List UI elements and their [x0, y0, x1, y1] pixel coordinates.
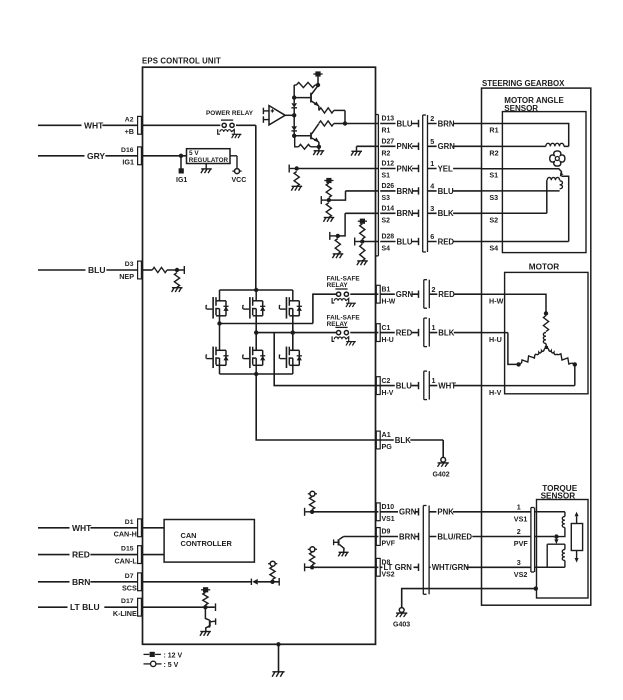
svg-text:A2: A2	[125, 116, 134, 123]
svg-text:D17: D17	[121, 598, 134, 605]
svg-text:GRN: GRN	[396, 290, 414, 299]
svg-text:D13: D13	[382, 116, 395, 123]
svg-text:BRN: BRN	[72, 577, 90, 587]
svg-text:CAN-H: CAN-H	[114, 530, 137, 539]
svg-text:D12: D12	[382, 161, 395, 168]
svg-text:WHT: WHT	[84, 120, 104, 130]
svg-text:S1: S1	[489, 171, 498, 180]
svg-text:H-V: H-V	[382, 390, 394, 397]
svg-text:: 12 V: : 12 V	[164, 652, 183, 659]
svg-text:D14: D14	[382, 206, 395, 213]
svg-text:C2: C2	[382, 378, 391, 385]
svg-text:CONTROLLER: CONTROLLER	[181, 539, 233, 548]
svg-text:5: 5	[430, 137, 434, 146]
svg-text:H-V: H-V	[489, 388, 502, 397]
svg-text:D10: D10	[382, 504, 395, 511]
svg-text:2: 2	[517, 527, 521, 536]
svg-text:3: 3	[517, 558, 521, 567]
svg-text:BRN: BRN	[438, 119, 455, 128]
svg-text:PVF: PVF	[514, 539, 529, 548]
svg-text:PNK: PNK	[397, 164, 414, 173]
svg-text:BLK: BLK	[438, 209, 454, 218]
svg-text:REGULATOR: REGULATOR	[189, 157, 229, 164]
svg-text:S3: S3	[382, 195, 391, 202]
svg-text:H-W: H-W	[489, 296, 504, 305]
svg-text:VCC: VCC	[232, 177, 247, 184]
svg-text:PNK: PNK	[397, 142, 414, 151]
svg-text:6: 6	[430, 232, 434, 241]
svg-text:PNK: PNK	[437, 508, 454, 517]
svg-text:POWER RELAY: POWER RELAY	[206, 110, 254, 117]
svg-text:: 5 V: : 5 V	[164, 662, 179, 669]
svg-text:S4: S4	[382, 246, 391, 253]
svg-text:R2: R2	[382, 151, 391, 158]
svg-text:LT BLU: LT BLU	[70, 602, 100, 612]
svg-text:H-W: H-W	[382, 298, 396, 305]
svg-text:H-U: H-U	[489, 335, 502, 344]
svg-text:D1: D1	[125, 519, 134, 526]
svg-text:SCS: SCS	[122, 584, 137, 593]
svg-text:GRN: GRN	[399, 508, 417, 517]
svg-text:SENSOR: SENSOR	[541, 491, 576, 500]
svg-text:S1: S1	[382, 173, 391, 180]
svg-text:BRN: BRN	[399, 532, 416, 541]
svg-text:R2: R2	[489, 149, 498, 158]
svg-text:2: 2	[430, 114, 434, 123]
svg-text:SENSOR: SENSOR	[504, 104, 538, 113]
svg-text:5 V: 5 V	[189, 150, 199, 157]
svg-text:S2: S2	[489, 216, 498, 225]
svg-text:4: 4	[430, 182, 434, 191]
svg-text:BLU/RED: BLU/RED	[437, 532, 472, 541]
svg-text:BRN: BRN	[397, 187, 414, 196]
svg-text:RED: RED	[72, 550, 90, 560]
svg-text:WHT/GRN: WHT/GRN	[432, 563, 470, 572]
svg-text:CAN-L: CAN-L	[114, 557, 137, 566]
svg-text:BLU: BLU	[397, 237, 413, 246]
svg-text:EPS CONTROL UNIT: EPS CONTROL UNIT	[142, 57, 221, 66]
svg-text:H-U: H-U	[382, 337, 394, 344]
svg-text:R1: R1	[382, 128, 391, 135]
svg-text:D27: D27	[382, 139, 395, 146]
svg-text:BLU: BLU	[397, 119, 413, 128]
svg-text:NEP: NEP	[119, 272, 134, 281]
svg-text:GRY: GRY	[87, 151, 105, 161]
svg-text:BLU: BLU	[396, 382, 412, 391]
svg-text:1: 1	[430, 159, 434, 168]
svg-text:RED: RED	[438, 290, 455, 299]
svg-text:STEERING GEARBOX: STEERING GEARBOX	[482, 79, 565, 88]
svg-text:D3: D3	[125, 261, 134, 268]
svg-text:MOTOR: MOTOR	[529, 262, 559, 271]
svg-text:K-LINE: K-LINE	[113, 609, 137, 618]
svg-text:GRN: GRN	[438, 142, 456, 151]
svg-text:BLK: BLK	[438, 329, 454, 338]
svg-text:RELAY: RELAY	[327, 282, 349, 289]
svg-text:S2: S2	[382, 218, 391, 225]
svg-text:VS2: VS2	[382, 572, 395, 579]
svg-text:1: 1	[432, 376, 436, 385]
svg-text:BLU: BLU	[438, 187, 454, 196]
svg-text:R1: R1	[489, 126, 498, 135]
svg-text:A1: A1	[382, 430, 391, 439]
svg-text:C1: C1	[382, 325, 391, 332]
svg-text:+B: +B	[125, 127, 134, 136]
svg-text:VS2: VS2	[514, 570, 528, 579]
svg-text:D7: D7	[125, 573, 134, 580]
svg-text:D15: D15	[121, 546, 134, 553]
svg-text:3: 3	[430, 204, 434, 213]
svg-text:IG1: IG1	[122, 158, 134, 167]
svg-text:D8: D8	[382, 560, 391, 567]
svg-text:1: 1	[517, 502, 521, 511]
svg-text:PG: PG	[382, 442, 393, 451]
svg-text:G403: G403	[393, 622, 410, 629]
svg-text:WHT: WHT	[438, 382, 456, 391]
svg-text:RED: RED	[396, 329, 413, 338]
svg-text:B1: B1	[382, 286, 391, 293]
svg-text:D9: D9	[382, 529, 391, 536]
svg-text:2: 2	[432, 285, 436, 294]
svg-text:WHT: WHT	[72, 523, 92, 533]
svg-text:IG1: IG1	[176, 177, 187, 184]
svg-text:D26: D26	[382, 183, 395, 190]
svg-text:BLU: BLU	[88, 265, 105, 275]
svg-text:VS1: VS1	[514, 514, 528, 523]
svg-text:S3: S3	[489, 193, 498, 202]
svg-text:BRN: BRN	[397, 209, 414, 218]
svg-text:VS1: VS1	[382, 516, 395, 523]
svg-text:1: 1	[432, 323, 436, 332]
svg-text:YEL: YEL	[438, 164, 453, 173]
svg-text:PVF: PVF	[382, 541, 395, 548]
svg-text:D16: D16	[121, 147, 134, 154]
svg-text:D28: D28	[382, 234, 395, 241]
svg-text:RED: RED	[438, 237, 455, 246]
svg-text:G402: G402	[433, 472, 450, 479]
svg-text:S4: S4	[489, 244, 498, 253]
svg-text:BLK: BLK	[395, 436, 411, 445]
